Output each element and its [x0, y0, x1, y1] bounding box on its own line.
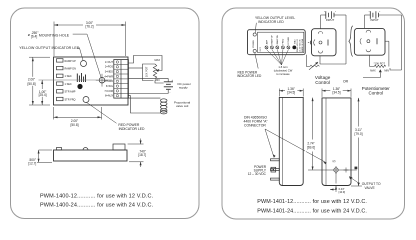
svg-text:(2): (2): [333, 160, 336, 163]
svg-text:MADE IN USA: MADE IN USA: [301, 38, 304, 52]
svg-text:1=OUT: 1=OUT: [105, 61, 114, 64]
svg-text:[69.6]: [69.6]: [307, 145, 315, 149]
svg-text:PWM-1401-24........... for use: PWM-1401-24........... for use with 24 V…: [257, 208, 367, 214]
svg-text:POWER: POWER: [253, 40, 255, 48]
svg-text:INPUT: INPUT: [370, 18, 379, 22]
svg-text:RAMP UP: RAMP UP: [65, 60, 77, 63]
svg-text:MAX: MAX: [155, 58, 161, 62]
svg-text:1 SEC: 1 SEC: [65, 83, 72, 86]
svg-text:INDICATOR LED: INDICATOR LED: [119, 127, 145, 131]
svg-text:STR FRQ: STR FRQ: [65, 98, 76, 101]
svg-text:DITHER: DITHER: [288, 36, 290, 44]
svg-text:PWM-1400-12........... for use: PWM-1400-12........... for use with 12 V…: [40, 193, 154, 199]
svg-text:OR: OR: [343, 80, 349, 84]
svg-text:2=POS: 2=POS: [105, 66, 113, 69]
svg-text:FREQ: FREQ: [283, 38, 285, 44]
svg-text:MAX: MAX: [293, 39, 296, 44]
svg-text:[50.8]: [50.8]: [71, 123, 79, 127]
svg-text:*10K POT: *10K POT: [374, 63, 386, 66]
svg-text:[76.2]: [76.2]: [86, 25, 94, 29]
svg-text:4=PWR: 4=PWR: [104, 75, 113, 78]
svg-text:to increase: to increase: [276, 72, 290, 76]
svg-text:INPUT: INPUT: [326, 18, 335, 22]
svg-text:5=GND: 5=GND: [105, 80, 114, 83]
svg-text:YELLOW OUTPUT INDICATOR LED: YELLOW OUTPUT INDICATOR LED: [19, 46, 80, 50]
svg-text:[6.4]: [6.4]: [31, 34, 37, 38]
svg-text:RAMP DN: RAMP DN: [276, 35, 279, 45]
svg-text:12 – 30 VDC: 12 – 30 VDC: [248, 172, 267, 176]
svg-text:3=NEG: 3=NEG: [105, 71, 113, 74]
svg-text:1 SEC: 1 SEC: [65, 75, 72, 78]
svg-text:RAMP DN: RAMP DN: [65, 68, 77, 71]
svg-text:7=COM: 7=COM: [104, 90, 113, 93]
svg-text:-: -: [170, 91, 171, 94]
svg-text:MIN: MIN: [384, 70, 389, 73]
svg-text:1-5 turn: 1-5 turn: [278, 65, 288, 69]
svg-text:CONNECTOR: CONNECTOR: [244, 124, 266, 128]
svg-text:MOUNTING HOLE: MOUNTING HOLE: [39, 33, 70, 37]
svg-text:8=AUX: 8=AUX: [105, 95, 113, 98]
svg-text:supply: supply: [179, 85, 188, 89]
svg-text:[34.5]: [34.5]: [287, 91, 295, 95]
svg-text:[12.7]: [12.7]: [28, 161, 36, 165]
svg-text:10K POT: 10K POT: [146, 66, 149, 77]
svg-text:INDICATOR LED: INDICATOR LED: [258, 20, 284, 24]
svg-text:AMP: AMP: [265, 39, 268, 44]
svg-text:[79.0]: [79.0]: [355, 132, 363, 136]
svg-text:RAMP UP: RAMP UP: [271, 35, 274, 45]
svg-text:STR AMP: STR AMP: [65, 91, 76, 94]
svg-text:PWM-1401-12........... for use: PWM-1401-12........... for use with 12 V…: [257, 199, 367, 205]
svg-text:PWM-1400-24........... for use: PWM-1400-24........... for use with 24 V…: [40, 203, 154, 209]
svg-text:MIN: MIN: [155, 78, 160, 82]
svg-text:Control: Control: [315, 80, 330, 85]
svg-text:valve coil: valve coil: [176, 104, 189, 108]
svg-text:[34.5]: [34.5]: [333, 91, 341, 95]
svg-text:VALVE: VALVE: [365, 186, 376, 190]
svg-text:[18.7]: [18.7]: [138, 153, 146, 157]
svg-text:Control: Control: [369, 90, 384, 95]
svg-text:[10.9]: [10.9]: [339, 190, 346, 194]
svg-text:MAX: MAX: [370, 70, 376, 73]
svg-text:[25.4]: [25.4]: [39, 93, 47, 97]
svg-text:[50.8]: [50.8]: [28, 82, 36, 86]
svg-text:INDICATOR LED: INDICATOR LED: [237, 74, 262, 78]
svg-text:ø: ø: [28, 33, 30, 37]
svg-text:(clockwise) CW: (clockwise) CW: [274, 68, 293, 72]
svg-text:6=SIG: 6=SIG: [106, 85, 113, 88]
